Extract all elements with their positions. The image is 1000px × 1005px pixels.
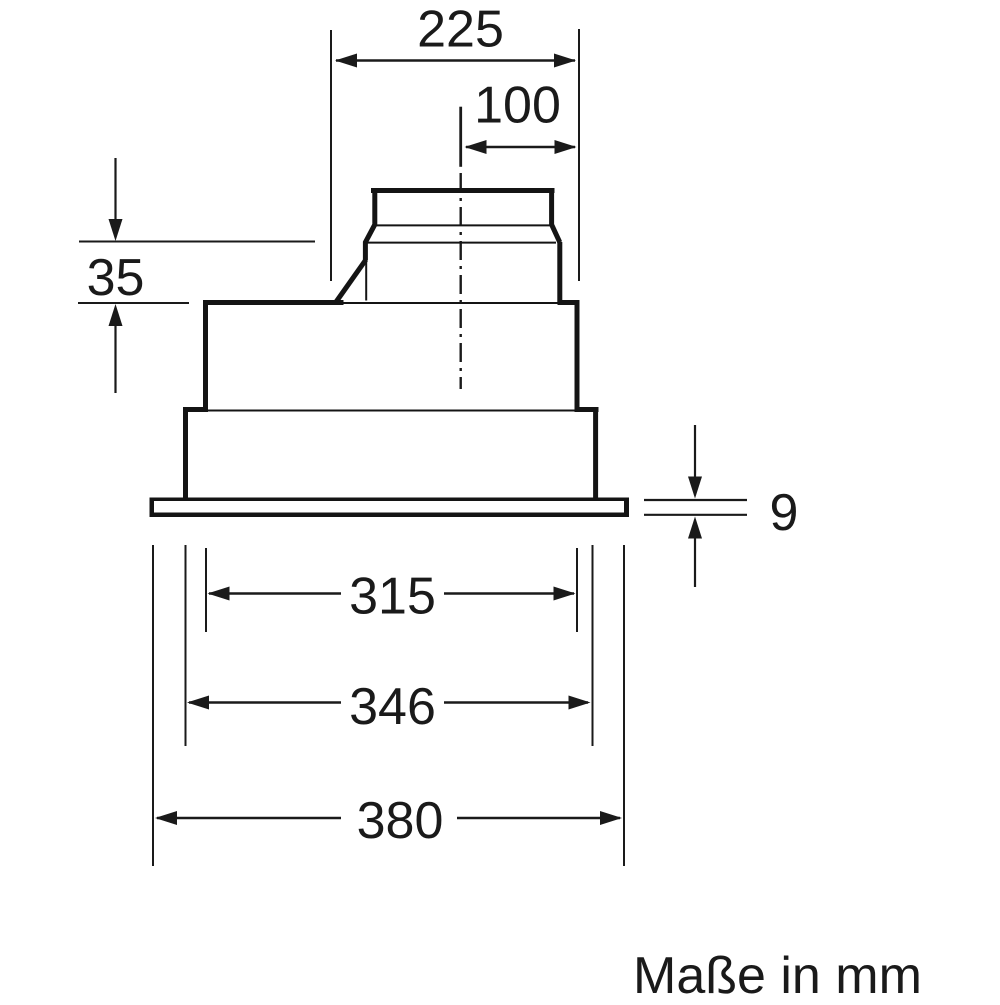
svg-text:9: 9 <box>770 484 799 542</box>
svg-text:Maße in mm: Maße in mm <box>633 947 922 1000</box>
svg-text:225: 225 <box>417 1 504 59</box>
svg-text:315: 315 <box>349 568 436 626</box>
svg-text:100: 100 <box>474 77 561 135</box>
svg-text:380: 380 <box>357 792 444 850</box>
svg-text:346: 346 <box>349 678 436 736</box>
svg-text:35: 35 <box>87 249 145 307</box>
